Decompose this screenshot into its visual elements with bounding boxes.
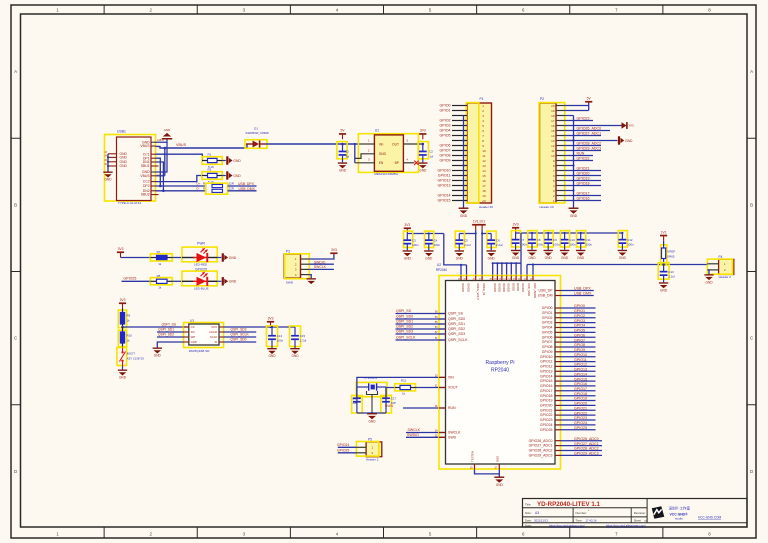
capacitor C11 [580,233,582,240]
svg-text:GPIO18: GPIO18 [574,392,587,396]
svg-text:GPIO0: GPIO0 [574,304,585,308]
crystal Y1 case [367,391,378,395]
capacitor C17 [385,387,387,399]
wire GND pins of USB1 [156,140,168,143]
svg-text:D+: D+ [197,182,201,186]
wire net GPIO13 [561,370,596,372]
svg-text:QSPI_SD3: QSPI_SD3 [396,330,413,334]
wire net GPIO16 [561,385,596,387]
svg-text:C11: C11 [586,238,591,242]
svg-text:USB1: USB1 [117,130,126,134]
svg-text:QSPI_SCLK: QSPI_SCLK [396,336,416,340]
svg-text:GND: GND [495,456,499,462]
pushbutton BOOT highlight box [117,348,127,366]
wire P4 pin1 jog [706,263,708,266]
svg-text:2021/11/13: 2021/11/13 [534,519,548,523]
svg-text:GND: GND [425,256,433,260]
wire shield to ground [107,154,109,172]
RP2040 bottom pin TESTEN [474,464,476,469]
header P1 body [467,103,492,203]
no-connect X on BP [414,161,418,165]
svg-text:GND: GND [233,159,241,163]
regulator U1 highlight box [358,134,418,173]
svg-text:QSPI_SD2: QSPI_SD2 [396,325,413,329]
junction C2 top [422,143,425,146]
svg-text:GPIO16: GPIO16 [540,384,553,388]
pin GPIO5 of U2 [555,331,561,333]
wire net GPIO23 [561,419,596,421]
svg-text:SBU2: SBU2 [141,193,150,197]
svg-text:12: 12 [551,144,555,148]
svg-text:GPIO25: GPIO25 [574,426,587,430]
pin GPIO3 of U2 [555,322,561,324]
wire P5 pin1 [338,446,357,448]
svg-text:D-: D- [197,187,200,191]
ground GND shield [103,172,112,178]
wire P2 pin 12 GPIO28_ADC2 [565,145,601,147]
ground below C10 [560,250,569,256]
wire D1 to C1 and U1 [266,143,359,145]
pin stub P1 pin 18 [452,190,467,192]
svg-text:GND: GND [570,214,578,218]
LED GPIO25 symbol [182,280,195,282]
wire P4 pin2 to ground [707,270,709,274]
svg-text:16: 16 [482,179,486,183]
ground arrow for R2 [222,175,226,177]
wire P3 pin2 SWDIO [309,263,334,265]
svg-text:GPIO24: GPIO24 [337,443,349,447]
wire net GPIO1 [561,312,596,314]
svg-text:SWD: SWD [286,281,294,285]
svg-text:20: 20 [551,104,555,108]
svg-text:GPIO10: GPIO10 [574,353,587,357]
resistor R10 body [122,327,124,332]
svg-text:GPIO22: GPIO22 [577,157,590,161]
svg-text:GPIO9: GPIO9 [542,350,553,354]
ground arrow for R1 [222,160,226,162]
pin stub P1 pin 10 [452,150,467,152]
capacitor C9 highlight box [544,231,553,247]
svg-text:19: 19 [482,194,486,198]
pin stub P1 pin 5 [452,125,467,127]
U1 pin 3 EN [355,162,375,164]
wire VBUS net [156,144,248,148]
svg-text:GPIO3: GPIO3 [440,124,451,128]
wire QSPI_SD0 to chip [396,318,445,320]
power 3V3 above R9 [122,304,124,309]
svg-text:GPIO12: GPIO12 [574,363,587,367]
svg-text:15: 15 [551,129,555,133]
pin GPIO24 of U2 [555,424,561,426]
svg-text:QSPI_SCLK: QSPI_SCLK [448,338,468,342]
svg-text:P4: P4 [719,255,723,259]
wire P2 pin 7 GPIO21 [565,170,601,172]
ground below C9 [544,250,553,256]
svg-text:10: 10 [482,149,486,153]
resistor R6 body [212,189,223,192]
svg-text:GPIO29_ADC3: GPIO29_ADC3 [529,454,553,458]
row tick marks left/right [11,137,21,139]
junction C11 top [580,232,582,234]
svg-text:GPIO17: GPIO17 [577,192,590,196]
svg-text:GND: GND [229,256,237,260]
ground below C2 [418,162,427,168]
svg-text:VBUS: VBUS [140,174,150,178]
junction VBUS tie [164,147,167,150]
junction C8 top [531,232,533,234]
svg-text:2.2uf: 2.2uf [668,275,675,279]
svg-text:GPIO17: GPIO17 [540,389,553,393]
svg-text:BOOT: BOOT [127,352,135,356]
power 3V3 at P3 [333,253,335,256]
resistor R2 body [202,175,208,177]
wire SWD to chip [406,436,445,438]
capacitor C7 highlight box [511,231,520,247]
svg-text:IOVDD: IOVDD [467,283,471,292]
pin GPIO26_ADC0 of U2 [555,440,561,442]
capacitor C5 highlight box [455,231,464,247]
wire P3 pin1 to 3V3 [309,255,334,260]
wire net GPIO10 [561,356,596,358]
ground below C13 [659,282,668,288]
wire 3V3 rail right group [516,232,623,234]
RP2040 body [446,281,556,465]
svg-text:100n: 100n [277,339,284,343]
pin stub P1 pin 19 [452,195,467,197]
pin USB_DP of U2 [555,290,561,292]
VREF filter highlight box [661,245,667,265]
wire VBUS1-VBUS2 tie [164,148,166,176]
pin GPIO14 of U2 [555,375,561,377]
svg-text:GPIO24: GPIO24 [574,421,587,425]
capacitor C5 [458,234,460,241]
svg-text:QSPI_SD1: QSPI_SD1 [448,322,465,326]
svg-text:GND: GND [496,483,504,487]
flash U3 left pin stubs [184,326,189,328]
wire net GPIO26_ADC0 [561,440,603,442]
header P2 pin stubs [556,200,565,202]
capacitor C6 [490,234,492,241]
diode D1 symbol [246,143,253,145]
wire P5 pin2 [338,452,357,454]
junction C9 top [547,232,549,234]
ground below C6 [487,250,496,256]
wire QSPI_SD2 to chip [396,328,445,330]
pin stub P1 pin 14 [452,170,467,172]
crystal Y1 highlight box [356,382,387,396]
svg-text:studio: studio [675,517,683,521]
wire ground rail under crystal [357,412,386,414]
capacitor C10 highlight box [560,231,569,247]
capacitor C3 highlight box [404,231,413,247]
svg-text:GND: GND [339,169,347,173]
svg-text:YD-RP2040-LITEV 1.1: YD-RP2040-LITEV 1.1 [537,501,600,508]
resistor R10 highlight box [118,330,126,347]
wire flash VCC to 3V3 and caps [224,326,296,328]
svg-text:D: D [14,469,17,474]
RP2040 bottom pin GND [498,464,500,469]
svg-text:18: 18 [482,189,486,193]
svg-text:ADC_AVDD: ADC_AVDD [533,283,537,298]
svg-text:3V3: 3V3 [404,223,410,227]
svg-text:A1B12: A1B12 [157,139,165,142]
ground below C1 [338,162,347,168]
ground at flash GND pin [153,348,162,354]
capacitor C17 highlight box [381,395,392,413]
wire P3 pin4 to ground [309,275,311,279]
svg-text:VCC: VCC [211,325,217,329]
svg-text:GND: GND [368,420,376,424]
svg-text:C9: C9 [553,238,557,242]
header P4 body [719,259,734,274]
wire flash WP QSPI_SD2 [157,336,184,338]
capacitor C4 highlight box [425,231,434,247]
ground arrow for GPIO25 LED [217,280,221,282]
svg-text:GPIO29_ADC3: GPIO29_ADC3 [574,452,599,456]
svg-text:11: 11 [551,149,554,153]
pin GPIO29_ADC3 of U2 [555,454,561,456]
regulator U1 body [374,135,403,171]
wire SWCLK to chip [406,432,445,434]
resistor R11 highlight box [395,384,416,391]
wire net USB_DMX [561,295,594,297]
pin GPIO13 of U2 [555,370,561,372]
ground below RP2040 [494,477,504,483]
svg-text:Vin: Vin [379,142,384,146]
wire net GPIO7 [561,341,596,343]
power 3V3 for PWR LED [120,253,122,258]
capacitor C7 [515,233,517,240]
svg-text:USB_VDD: USB_VDD [527,283,531,296]
power arrow 3V3 at P2 pin16 [622,122,628,129]
svg-text:R10: R10 [127,334,133,338]
svg-text:C10: C10 [569,238,575,242]
pin stub P1 pin 13 [452,165,467,167]
svg-text:GND: GND [268,354,276,358]
wire net GPIO29_ADC3 [561,454,603,456]
svg-text:GND: GND [404,256,412,260]
svg-text:GND: GND [120,156,128,160]
ground below C7 [511,250,520,256]
svg-text:QSPI_SD2: QSPI_SD2 [158,333,174,337]
svg-text:GPIO22: GPIO22 [540,413,553,417]
diode D1 highlight box [245,140,267,149]
power 5V above C1 [342,135,344,140]
svg-text:22R: 22R [229,187,234,191]
pin stub P1 pin 8 [452,140,467,142]
flash U3 body [189,324,219,345]
svg-text:1uf: 1uf [345,154,349,158]
svg-text:GPIO15: GPIO15 [438,199,451,203]
pin stub P1 pin 16 [452,180,467,182]
capacitor C16 highlight box [352,395,363,413]
svg-text:GPIO4: GPIO4 [542,326,553,330]
capacitor C8 highlight box [528,231,537,247]
svg-text:22R: 22R [229,182,234,186]
svg-text:D: D [750,469,753,474]
wire net GPIO19 [561,400,596,402]
U1 pin 5 OUT [403,143,422,145]
svg-text:GPIO5: GPIO5 [574,329,585,333]
wire P2 pin 2 GPIO17 [565,195,601,197]
svg-text:WP: WP [191,335,196,339]
pin GPIO21 of U2 [555,409,561,411]
capacitor C14 highlight box [267,326,278,347]
wire P2 pin 1 GPIO16 [565,200,601,202]
svg-text:100n: 100n [627,243,634,247]
junction C4 top [428,232,430,234]
svg-text:GPIO14: GPIO14 [574,372,587,376]
wire flash SO QSPI_SD1 [157,331,184,333]
svg-text:USB_DP: USB_DP [538,289,553,293]
wire CC1 to R1 [156,154,203,160]
svg-text:GND: GND [191,340,197,344]
wire net GPIO21 [561,409,596,411]
svg-text:14: 14 [551,134,555,138]
svg-text:C4: C4 [434,238,438,242]
svg-text:GPIO16: GPIO16 [577,197,590,201]
svg-text:GPIO3: GPIO3 [574,319,585,323]
svg-text:GPIO21: GPIO21 [574,407,587,411]
pin USB_DM of U2 [555,295,561,297]
svg-text:GND: GND [291,354,299,358]
wire DN1 to D- node [156,162,164,191]
svg-text:GPIO20: GPIO20 [574,402,587,406]
header P3 pin stubs [301,258,310,260]
junction C1 top [341,143,344,146]
svg-text:GPIO14: GPIO14 [540,374,553,378]
svg-text:Note:: Note: [525,523,532,527]
pin GPIO2 of U2 [555,317,561,319]
svg-text:VREF: VREF [667,250,675,254]
wire net GPIO11 [561,361,596,363]
junction QSPI_SS node [121,326,124,329]
svg-text:TYPE-C-31-M-12: TYPE-C-31-M-12 [118,201,142,205]
svg-text:100n: 100n [553,243,560,247]
RP2040 top pin stubs and rotated names [460,276,462,281]
pin GPIO10 of U2 [555,356,561,358]
svg-text:GPIO11: GPIO11 [438,174,451,178]
svg-text:GPIO25: GPIO25 [123,276,136,280]
wire P2 pin 6 GPIO20 [565,175,601,177]
wire DP1 to D+ node [156,158,161,186]
svg-text:GND: GND [120,164,128,168]
pin GPIO18 of U2 [555,395,561,397]
pin GPIO8 of U2 [555,346,561,348]
svg-text:3V3: 3V3 [513,223,519,227]
flash U3 highlight box [184,323,224,348]
pin stub P1 pin 9 [452,145,467,147]
ground below P3 pin4 [307,278,316,284]
svg-text:GPIO23: GPIO23 [577,117,590,121]
svg-text:Title:: Title: [525,502,532,506]
svg-text:13: 13 [551,139,555,143]
wire flash HOLD QSPI_SD3 [224,331,257,333]
svg-text:RP2040: RP2040 [491,368,509,374]
resistor R1 highlight box [202,157,222,165]
wire net GPIO0 [561,307,596,309]
svg-text:https://vcc-gnd.aliexpress.com: https://vcc-gnd.aliexpress.com/ [606,523,646,527]
capacitor C15 highlight box [290,326,301,347]
svg-text:GPIO21: GPIO21 [540,408,553,412]
svg-text:VBUS: VBUS [140,144,150,148]
USB1 highlight box [105,135,156,202]
svg-text:GPIO15: GPIO15 [540,379,553,383]
pin stub P1 pin 12 [452,160,467,162]
svg-text:GPIO8: GPIO8 [574,343,585,347]
svg-text:GPIO23: GPIO23 [540,418,553,422]
wire P2 pin 4 GPIO18 [565,185,601,187]
svg-text:100n: 100n [569,243,576,247]
wire net GPIO2 [561,317,596,319]
wire QSPI_SD3 to chip [396,333,445,335]
wire R7 to LED PWR [172,257,182,259]
ground arrow at P2 pin13 [618,136,624,144]
pin GPIO4 of U2 [555,327,561,329]
svg-text:QSPI_SD2: QSPI_SD2 [448,327,465,331]
svg-text:GPIO1: GPIO1 [542,311,553,315]
svg-text:GPIO2: GPIO2 [574,314,585,318]
svg-text:of: of [645,519,648,523]
ground below BOOT [118,370,127,376]
svg-text:GPIO7: GPIO7 [574,338,585,342]
svg-text:17: 17 [551,119,555,123]
capacitor C1 [342,144,344,152]
svg-text:GPIO17: GPIO17 [574,387,587,391]
wire P3 pin3 SWCLK [309,268,334,270]
svg-text:QSPI_SD3: QSPI_SD3 [230,328,246,332]
capacitor C4 [428,234,430,241]
svg-text:C2: C2 [429,150,433,154]
svg-text:LED-BLUE: LED-BLUE [194,286,209,290]
ground below C3 [403,250,412,256]
wire ADC_AVDD long rail to VREF [526,265,528,276]
svg-text:QSPI_SD0: QSPI_SD0 [448,317,465,321]
wire net GPIO3 [561,322,596,324]
svg-text:100n: 100n [537,243,544,247]
capacitor C1 highlight box [337,142,347,159]
svg-text:GPIO19: GPIO19 [577,177,590,181]
wire D- to R6 [156,190,207,192]
ground below P2 [569,208,579,214]
svg-text:GND: GND [229,280,237,284]
LED GPIO25 highlight box [182,271,217,286]
svg-text:GPIO28_ADC2: GPIO28_ADC2 [574,447,599,451]
svg-text:ZD25Q16B SR: ZD25Q16B SR [189,349,210,353]
pin GPIO12 of U2 [555,365,561,367]
LED PWR symbol [182,257,195,259]
series resistors R5 R6 highlight box [206,183,228,194]
wire flash SI QSPI_SD0 [224,341,257,343]
svg-text:GPIO20: GPIO20 [577,172,590,176]
svg-text:OUT: OUT [392,142,399,146]
svg-text:SWCLK: SWCLK [314,265,327,269]
USB1 body [117,137,152,201]
svg-text:C1: C1 [345,150,349,154]
svg-text:GPIO7: GPIO7 [542,340,553,344]
svg-text:GPIO4: GPIO4 [440,129,451,133]
svg-text:13: 13 [482,164,486,168]
svg-text:GND: GND [460,214,468,218]
ground below P4 [704,274,713,280]
svg-text:VREG_VOUT: VREG_VOUT [476,283,480,301]
pin GPIO0 of U2 [555,307,561,309]
svg-text:GPIO25: GPIO25 [540,428,553,432]
wire RUN to chip [403,407,445,409]
svg-text:C12: C12 [627,238,633,242]
svg-text:GND: GND [419,169,427,173]
svg-text:1uf: 1uf [429,154,433,158]
